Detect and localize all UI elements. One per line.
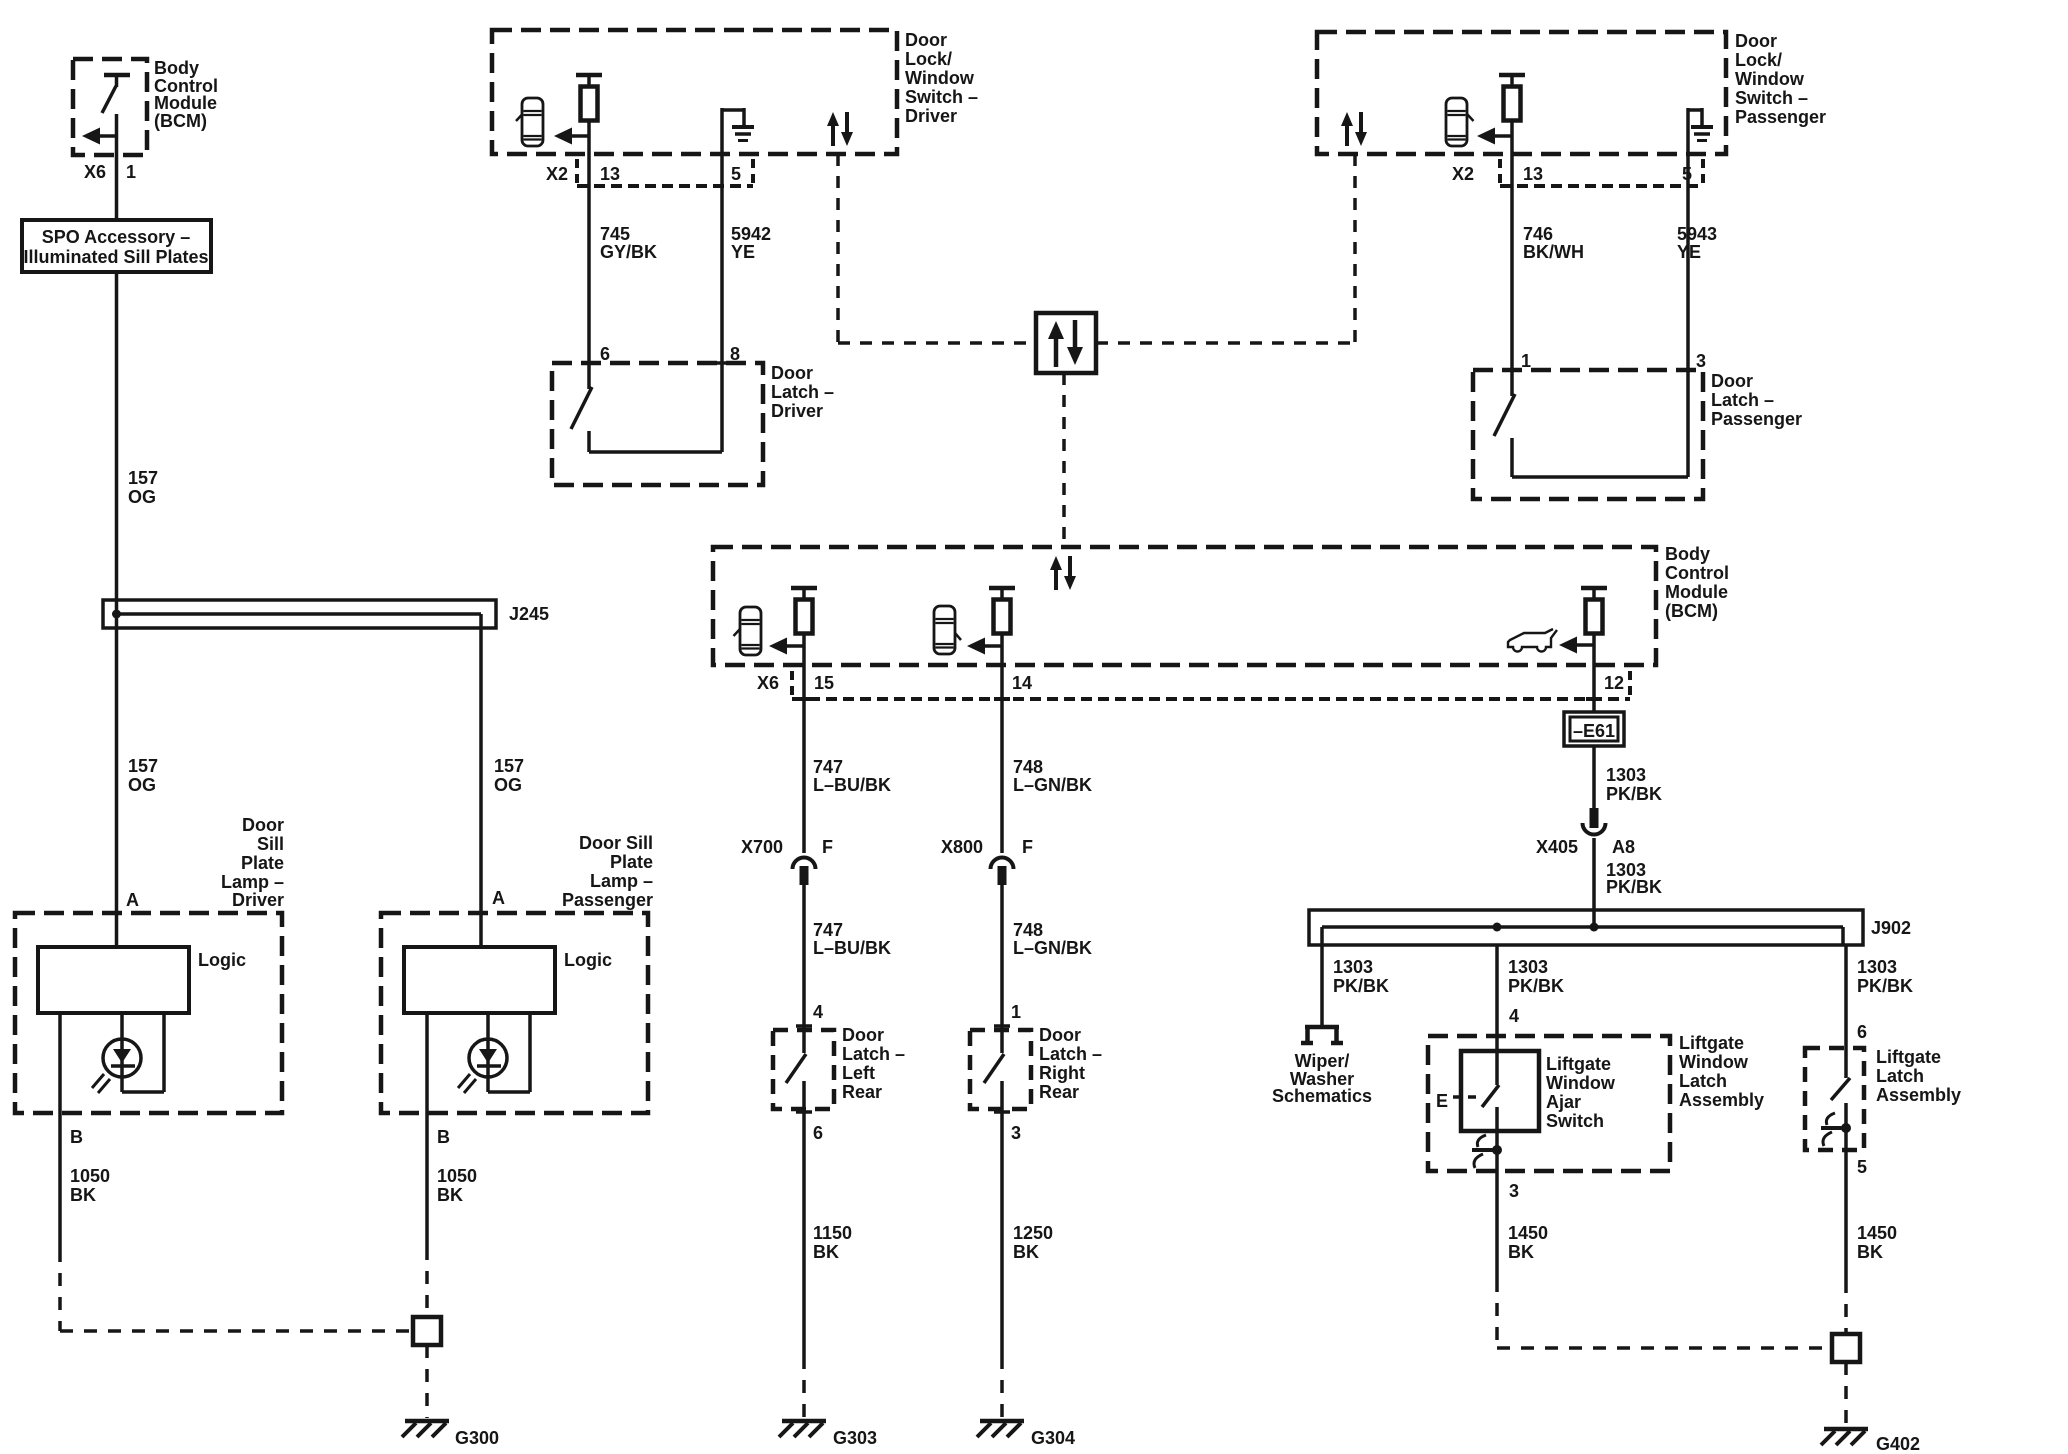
- svg-text:G304: G304: [1031, 1428, 1075, 1448]
- svg-text:Window: Window: [1679, 1052, 1749, 1072]
- ground symbol in passenger switch: [1688, 108, 1713, 141]
- svg-text:B: B: [70, 1127, 83, 1147]
- svg-text:L–GN/BK: L–GN/BK: [1013, 938, 1092, 958]
- svg-text:Switch –: Switch –: [905, 87, 978, 107]
- resistor BCM middle: [989, 588, 1015, 634]
- svg-text:Wiper/: Wiper/: [1295, 1051, 1350, 1071]
- wire label 748 L-GN/BK lower: [1013, 920, 1092, 958]
- svg-text:G300: G300: [455, 1428, 499, 1448]
- arrow BCM left: [769, 638, 804, 655]
- svg-text:745: 745: [600, 224, 630, 244]
- wire label 1050 BK driver: [70, 1166, 110, 1205]
- tick pin 12 wire: [1586, 697, 1602, 701]
- dashed wire to ground G300: [425, 1345, 429, 1418]
- svg-text:Rear: Rear: [842, 1082, 882, 1102]
- resistor driver switch: [576, 75, 602, 121]
- wire J902 to wiper/washer: [1320, 945, 1324, 1025]
- svg-text:Door Sill: Door Sill: [579, 833, 653, 853]
- Logic box passenger lamp: [404, 947, 555, 1013]
- svg-text:746: 746: [1523, 224, 1553, 244]
- up-down arrows in BCM: [1050, 556, 1076, 590]
- svg-text:BK: BK: [1013, 1242, 1039, 1262]
- wire 5943 YE ground to latch: [1686, 108, 1690, 370]
- car door flag driver: [516, 114, 523, 121]
- svg-text:1050: 1050: [70, 1166, 110, 1186]
- svg-text:L–GN/BK: L–GN/BK: [1013, 775, 1092, 795]
- car door flag BCM left: [734, 629, 741, 636]
- wire label 747 L-BU/BK lower: [813, 920, 891, 958]
- svg-text:6: 6: [600, 344, 610, 364]
- svg-text:E: E: [1436, 1091, 1448, 1111]
- svg-text:13: 13: [1523, 164, 1543, 184]
- wire label 1303 PK/BK mid: [1606, 860, 1662, 897]
- center lock connector box: [1036, 313, 1096, 373]
- wire X405 to J902: [1592, 838, 1596, 927]
- label Door Lock/Window Switch - Driver: [905, 30, 978, 126]
- junction dot J902 mid tap: [1493, 923, 1502, 932]
- Door Lock/Window Switch Driver dashed box: [492, 30, 897, 154]
- svg-text:A8: A8: [1612, 837, 1635, 857]
- label Liftgate Window Ajar Switch: [1546, 1054, 1616, 1131]
- wire label 1050 BK passenger: [437, 1166, 477, 1205]
- Door Latch Passenger dashed box: [1473, 370, 1703, 499]
- svg-text:Control: Control: [1665, 563, 1729, 583]
- connector X6 strip below BCM: [792, 671, 1630, 699]
- car door flag passenger: [1467, 114, 1474, 121]
- svg-text:Plate: Plate: [610, 852, 653, 872]
- resistor BCM left: [791, 588, 817, 634]
- svg-text:A: A: [126, 890, 139, 910]
- svg-text:BK: BK: [70, 1185, 96, 1205]
- svg-text:Latch –: Latch –: [1711, 390, 1774, 410]
- label Door Latch - Left Rear: [842, 1025, 905, 1102]
- car icon BCM middle: [934, 606, 955, 654]
- splice J245: [103, 600, 496, 628]
- svg-text:Latch: Latch: [1876, 1066, 1924, 1086]
- svg-text:Rear: Rear: [1039, 1082, 1079, 1102]
- svg-text:4: 4: [813, 1002, 823, 1022]
- switch right rear latch: [984, 1054, 1010, 1356]
- door latch driver switch: [571, 363, 730, 452]
- Liftgate Latch Assembly dashed box: [1805, 1048, 1864, 1150]
- ground G304: [977, 1421, 1024, 1437]
- svg-text:PK/BK: PK/BK: [1606, 784, 1662, 804]
- wire B passenger lamp: [425, 1013, 429, 1247]
- svg-text:PK/BK: PK/BK: [1333, 976, 1389, 996]
- svg-text:G402: G402: [1876, 1434, 1920, 1454]
- tick pin 14 wire: [994, 697, 1010, 701]
- switch liftgate latch: [1831, 1078, 1850, 1280]
- up-down arrows in center box: [1048, 320, 1083, 367]
- wire label 1450 BK latch: [1857, 1223, 1897, 1262]
- svg-text:A: A: [492, 888, 505, 908]
- svg-text:1: 1: [126, 162, 136, 182]
- dashed wire to ground G402: [1844, 1362, 1848, 1426]
- svg-text:L–BU/BK: L–BU/BK: [813, 938, 891, 958]
- label Door Latch - Driver: [771, 363, 834, 421]
- svg-text:BK: BK: [437, 1185, 463, 1205]
- svg-text:X2: X2: [546, 164, 568, 184]
- svg-text:1250: 1250: [1013, 1223, 1053, 1243]
- relay E61 box: [1564, 712, 1624, 746]
- svg-text:(BCM): (BCM): [1665, 601, 1718, 621]
- wire X800 to right rear latch: [1000, 884, 1004, 1053]
- wire label 157 OG (upper): [128, 468, 158, 507]
- wire label 157 OG (passenger lamp): [494, 756, 524, 795]
- svg-text:747: 747: [813, 757, 843, 777]
- svg-text:3: 3: [1509, 1181, 1519, 1201]
- BCM (top-left) output arrow: [82, 128, 117, 145]
- junction dot on J245: [112, 610, 121, 619]
- svg-text:Window: Window: [1546, 1073, 1616, 1093]
- svg-text:1050: 1050: [437, 1166, 477, 1186]
- dashed wire ajar to G402 junction: [1497, 1279, 1832, 1348]
- svg-text:3: 3: [1696, 351, 1706, 371]
- svg-text:Passenger: Passenger: [1711, 409, 1802, 429]
- svg-text:Body: Body: [154, 58, 199, 78]
- svg-text:6: 6: [1857, 1022, 1867, 1042]
- switch left rear latch: [786, 1054, 812, 1356]
- wire E61 to X405: [1592, 746, 1596, 810]
- wire BCM X6-1 to SPO box: [115, 114, 119, 220]
- wire label 745 GY/BK: [600, 224, 657, 262]
- svg-text:13: 13: [600, 164, 620, 184]
- svg-text:747: 747: [813, 920, 843, 940]
- dashed wire passenger B to G300 junction: [425, 1247, 429, 1317]
- wire label 1303 PK/BK upper: [1606, 765, 1662, 804]
- svg-text:X800: X800: [941, 837, 983, 857]
- svg-text:B: B: [437, 1127, 450, 1147]
- svg-text:Passenger: Passenger: [562, 890, 653, 910]
- connector X2 strip passenger: [1500, 159, 1703, 186]
- arrow driver switch: [554, 128, 589, 145]
- connector X405: [1583, 808, 1606, 835]
- svg-text:Liftgate: Liftgate: [1876, 1047, 1941, 1067]
- tick right rear latch top: [994, 1024, 1010, 1028]
- wire 745 GY/BK resistor to latch: [587, 120, 591, 363]
- svg-text:Latch –: Latch –: [1039, 1044, 1102, 1064]
- tick left rear latch top: [796, 1024, 812, 1028]
- svg-text:–E61: –E61: [1573, 721, 1615, 741]
- dashed wire to G304: [1000, 1356, 1004, 1418]
- svg-text:Plate: Plate: [241, 853, 284, 873]
- ground G303: [779, 1421, 826, 1437]
- svg-text:Window: Window: [905, 68, 975, 88]
- svg-text:X405: X405: [1536, 837, 1578, 857]
- svg-text:Latch: Latch: [1679, 1071, 1727, 1091]
- svg-text:Door: Door: [842, 1025, 884, 1045]
- junction dot J902 input: [1590, 923, 1599, 932]
- wire label 5942 YE: [731, 224, 771, 262]
- svg-text:Switch: Switch: [1546, 1111, 1604, 1131]
- svg-text:Ajar: Ajar: [1546, 1092, 1581, 1112]
- door latch passenger switch: [1494, 370, 1696, 477]
- ground symbol in driver switch: [722, 108, 754, 141]
- wire label 1450 BK ajar: [1508, 1223, 1548, 1262]
- svg-text:748: 748: [1013, 757, 1043, 777]
- svg-text:Switch –: Switch –: [1735, 88, 1808, 108]
- svg-text:Lamp –: Lamp –: [221, 872, 284, 892]
- svg-text:L–BU/BK: L–BU/BK: [813, 775, 891, 795]
- SPO Accessory - Illuminated Sill Plates box: [22, 220, 211, 272]
- svg-text:4: 4: [1509, 1006, 1519, 1026]
- svg-text:1150: 1150: [813, 1223, 852, 1243]
- svg-text:5: 5: [1857, 1157, 1867, 1177]
- svg-text:1450: 1450: [1857, 1223, 1897, 1243]
- svg-text:X2: X2: [1452, 164, 1474, 184]
- svg-text:Driver: Driver: [771, 401, 823, 421]
- wire ajar switch to pin 3: [1495, 1107, 1499, 1279]
- svg-text:1303: 1303: [1508, 957, 1548, 977]
- svg-text:Body: Body: [1665, 544, 1710, 564]
- wire B driver lamp: [58, 1013, 62, 1249]
- svg-text:GY/BK: GY/BK: [600, 242, 657, 262]
- svg-text:5: 5: [1682, 164, 1692, 184]
- G300 junction square: [413, 1317, 441, 1345]
- wire 157 OG from SPO box to J245 and on to driver lamp: [115, 272, 119, 947]
- svg-text:Liftgate: Liftgate: [1546, 1054, 1611, 1074]
- Door Sill Plate Lamp Passenger dashed box: [381, 913, 648, 1113]
- wire 748 from resistor to X800: [1000, 633, 1004, 853]
- svg-text:15: 15: [814, 673, 834, 693]
- car icon passenger switch: [1446, 98, 1467, 146]
- svg-text:F: F: [1022, 837, 1033, 857]
- Liftgate Window Latch Assembly dashed box: [1428, 1036, 1670, 1171]
- svg-text:Logic: Logic: [564, 950, 612, 970]
- label Door Latch - Right Rear: [1039, 1025, 1102, 1102]
- svg-text:Left: Left: [842, 1063, 875, 1083]
- svg-text:PK/BK: PK/BK: [1606, 877, 1662, 897]
- svg-text:Door: Door: [1039, 1025, 1081, 1045]
- Door Sill Plate Lamp Driver dashed box: [15, 913, 282, 1113]
- svg-text:3: 3: [1011, 1123, 1021, 1143]
- BCM (top-left) dashed box: [73, 59, 147, 155]
- arrow passenger switch: [1477, 128, 1512, 145]
- svg-text:157: 157: [494, 756, 524, 776]
- car icon BCM left: [740, 607, 761, 655]
- label Door Lock/Window Switch - Passenger: [1735, 31, 1826, 127]
- svg-text:157: 157: [128, 468, 158, 488]
- svg-text:BK: BK: [1857, 1242, 1883, 1262]
- svg-text:Door: Door: [1735, 31, 1777, 51]
- connector X2 strip driver: [577, 159, 753, 186]
- dashed wire to G303: [802, 1356, 806, 1418]
- label Body Control Module (BCM) center: [1665, 544, 1729, 621]
- arrow BCM right: [1559, 637, 1594, 654]
- resistor BCM right: [1581, 588, 1607, 634]
- tick pin 15 wire: [796, 697, 812, 701]
- svg-text:748: 748: [1013, 920, 1043, 940]
- label Door Sill Plate Lamp - Driver: [221, 815, 284, 910]
- Door Latch Left Rear dashed box: [773, 1030, 834, 1109]
- svg-text:X6: X6: [757, 673, 779, 693]
- wire label 5943 YE: [1677, 224, 1717, 262]
- wire label 746 BK/WH: [1523, 224, 1584, 262]
- dashed wire driver switch to center connector: [838, 154, 1036, 343]
- wire label 1250 BK: [1013, 1223, 1053, 1262]
- svg-text:6: 6: [813, 1123, 823, 1143]
- BCM (top-left) internal driver switch symbol: [102, 75, 130, 113]
- dashed wire latch to G402 junction: [1844, 1280, 1848, 1334]
- Liftgate Window Ajar Switch box: [1461, 1051, 1539, 1131]
- label Door Sill Plate Lamp - Passenger: [562, 833, 653, 910]
- svg-text:OG: OG: [128, 775, 156, 795]
- svg-text:Assembly: Assembly: [1876, 1085, 1961, 1105]
- up-down arrows driver switch: [827, 112, 853, 146]
- svg-text:12: 12: [1604, 673, 1624, 693]
- svg-text:Passenger: Passenger: [1735, 107, 1826, 127]
- pigtail symbol ajar switch: [1472, 1135, 1502, 1168]
- liftgate icon BCM right: [1508, 629, 1557, 652]
- connector X800: [991, 858, 1014, 886]
- svg-text:OG: OG: [128, 487, 156, 507]
- svg-text:BK: BK: [1508, 1242, 1534, 1262]
- svg-text:Driver: Driver: [232, 890, 284, 910]
- wire J902 to liftgate latch: [1844, 945, 1848, 1078]
- ajar switch blade and actuator E: [1436, 1051, 1499, 1111]
- Door Latch Right Rear dashed box: [970, 1030, 1031, 1109]
- svg-text:1303: 1303: [1857, 957, 1897, 977]
- svg-text:BK: BK: [813, 1242, 839, 1262]
- wire pin 12 to E61: [1592, 633, 1596, 712]
- svg-text:Latch –: Latch –: [842, 1044, 905, 1064]
- svg-text:YE: YE: [731, 242, 755, 262]
- svg-text:Lock/: Lock/: [1735, 50, 1782, 70]
- svg-text:F: F: [822, 837, 833, 857]
- svg-text:Door: Door: [905, 30, 947, 50]
- svg-text:157: 157: [128, 756, 158, 776]
- wire label 1150 BK: [813, 1223, 852, 1262]
- label Liftgate Latch Assembly: [1876, 1047, 1961, 1105]
- svg-text:Logic: Logic: [198, 950, 246, 970]
- arrow BCM middle: [967, 638, 1002, 655]
- wire 746 BK/WH resistor to latch: [1510, 120, 1514, 370]
- svg-text:5: 5: [731, 164, 741, 184]
- LED lamp symbol driver: [92, 1013, 164, 1093]
- resistor passenger switch: [1499, 75, 1525, 121]
- label Liftgate Window Latch Assembly: [1679, 1033, 1764, 1110]
- wire 5942 YE ground to latch: [720, 108, 724, 363]
- svg-text:Window: Window: [1735, 69, 1805, 89]
- pigtail symbol liftgate latch: [1821, 1113, 1851, 1146]
- LED lamp symbol passenger: [458, 1013, 530, 1093]
- svg-text:J902: J902: [1871, 918, 1911, 938]
- svg-text:Right: Right: [1039, 1063, 1085, 1083]
- Body Control Module dashed box (center): [713, 547, 1656, 665]
- svg-text:BK/WH: BK/WH: [1523, 242, 1584, 262]
- label Wiper/Washer Schematics: [1272, 1051, 1372, 1106]
- Door Latch Driver dashed box: [552, 363, 763, 485]
- splice J902: [1309, 910, 1863, 945]
- svg-text:J245: J245: [509, 604, 549, 624]
- ground G402: [1821, 1429, 1868, 1445]
- svg-text:5943: 5943: [1677, 224, 1717, 244]
- svg-text:Liftgate: Liftgate: [1679, 1033, 1744, 1053]
- svg-text:X700: X700: [741, 837, 783, 857]
- Logic box driver lamp: [38, 947, 189, 1013]
- svg-text:Sill: Sill: [257, 834, 284, 854]
- svg-text:OG: OG: [494, 775, 522, 795]
- svg-text:Module: Module: [1665, 582, 1728, 602]
- svg-text:Schematics: Schematics: [1272, 1086, 1372, 1106]
- svg-text:Illuminated Sill Plates: Illuminated Sill Plates: [23, 247, 208, 267]
- connector X700: [793, 858, 816, 886]
- Door Lock/Window Switch Passenger dashed box: [1317, 32, 1726, 154]
- svg-text:Door: Door: [1711, 371, 1753, 391]
- svg-text:1: 1: [1521, 351, 1531, 371]
- svg-text:G303: G303: [833, 1428, 877, 1448]
- wire J902 to liftgate window ajar switch: [1495, 945, 1499, 1085]
- wire label 748 L-GN/BK upper: [1013, 757, 1092, 795]
- svg-text:Driver: Driver: [905, 106, 957, 126]
- svg-text:YE: YE: [1677, 242, 1701, 262]
- car door flag BCM middle: [955, 633, 961, 640]
- label Door Latch - Passenger: [1711, 371, 1802, 429]
- up-down arrows passenger switch: [1341, 112, 1367, 146]
- svg-text:14: 14: [1012, 673, 1032, 693]
- svg-text:1303: 1303: [1606, 765, 1646, 785]
- svg-text:(BCM): (BCM): [154, 111, 207, 131]
- svg-text:Latch –: Latch –: [771, 382, 834, 402]
- svg-text:5942: 5942: [731, 224, 771, 244]
- wire 157 OG to passenger lamp: [479, 628, 483, 947]
- svg-text:PK/BK: PK/BK: [1857, 976, 1913, 996]
- svg-text:X6: X6: [84, 162, 106, 182]
- dashed wire center box down to BCM: [1062, 373, 1066, 547]
- G402 junction square: [1832, 1334, 1860, 1362]
- svg-text:PK/BK: PK/BK: [1508, 976, 1564, 996]
- wire label 1303 PK/BK latch tap: [1857, 957, 1913, 996]
- dashed wire driver B to G300: [60, 1249, 413, 1331]
- dashed wire center box to passenger switch: [1096, 154, 1355, 343]
- svg-text:Door: Door: [242, 815, 284, 835]
- svg-text:Module: Module: [154, 93, 217, 113]
- wire label 1303 PK/BK ajar tap: [1508, 957, 1564, 996]
- svg-text:1450: 1450: [1508, 1223, 1548, 1243]
- car icon driver switch: [522, 98, 543, 146]
- svg-text:1: 1: [1011, 1002, 1021, 1022]
- wire label 747 L-BU/BK upper: [813, 757, 891, 795]
- wire 747 from resistor to X700: [802, 633, 806, 853]
- svg-text:Assembly: Assembly: [1679, 1090, 1764, 1110]
- ground G300: [402, 1421, 449, 1437]
- wire label 157 OG (driver lamp): [128, 756, 158, 795]
- svg-text:1303: 1303: [1333, 957, 1373, 977]
- label Body Control Module (BCM) top-left: [154, 58, 218, 131]
- wire X700 to left rear latch: [802, 884, 806, 1053]
- svg-text:Lock/: Lock/: [905, 49, 952, 69]
- off-page connector wiper/washer: [1301, 1027, 1343, 1043]
- svg-text:SPO Accessory –: SPO Accessory –: [42, 227, 190, 247]
- svg-text:Door: Door: [771, 363, 813, 383]
- wire label 1303 PK/BK wiper tap: [1333, 957, 1389, 996]
- svg-text:Lamp –: Lamp –: [590, 871, 653, 891]
